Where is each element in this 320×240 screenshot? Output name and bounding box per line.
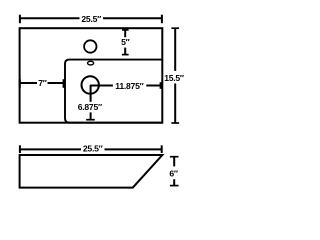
svg-text:11.875″: 11.875″	[115, 81, 143, 91]
svg-text:7″: 7″	[38, 78, 47, 88]
svg-text:6″: 6″	[169, 169, 178, 179]
svg-text:6.875″: 6.875″	[78, 102, 102, 112]
svg-text:5″: 5″	[121, 37, 130, 47]
svg-text:25.5″: 25.5″	[81, 14, 101, 24]
svg-text:15.5″: 15.5″	[164, 73, 184, 83]
svg-text:25.5″: 25.5″	[83, 144, 103, 154]
